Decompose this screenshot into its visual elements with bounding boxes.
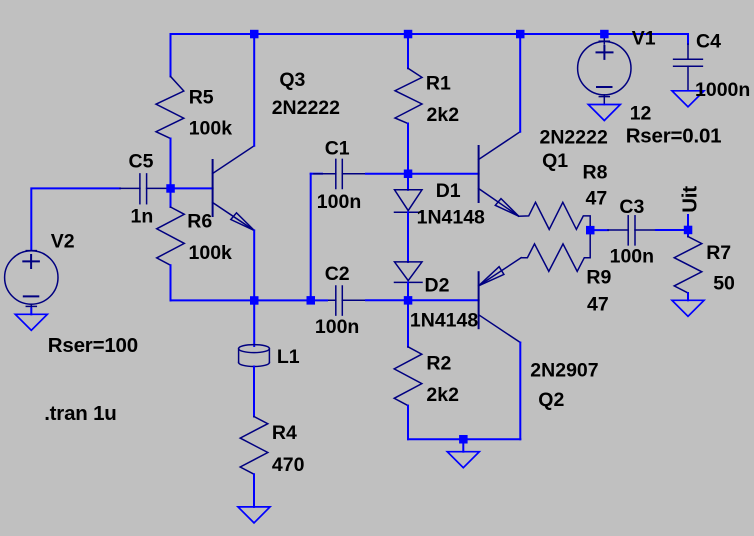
- svg-text:47: 47: [587, 293, 609, 315]
- wire C3 to output node: [656, 229, 688, 231]
- transistor Q1: [479, 132, 521, 217]
- svg-text:Q1: Q1: [542, 150, 568, 172]
- wire R6 bottom lead: [170, 265, 172, 300]
- resistor R9: [521, 230, 590, 271]
- capacitor C5: [120, 174, 168, 204]
- svg-text:100k: 100k: [189, 242, 233, 264]
- wire C4 top lead: [687, 34, 689, 44]
- node Uit stub: [687, 215, 689, 230]
- svg-text:V1: V1: [632, 27, 656, 49]
- wire C2 to node: [366, 299, 408, 301]
- wire bottom-left horizontal: [171, 299, 255, 301]
- wire L1 top lead: [253, 300, 255, 346]
- wire node to C3: [590, 229, 608, 231]
- svg-text:C4: C4: [696, 31, 721, 53]
- wire Q3 collector to rail: [253, 34, 255, 146]
- wire Q1 collector to rail: [519, 34, 521, 132]
- ground at C4: [672, 91, 704, 107]
- wire R2 bottom lead: [407, 406, 409, 440]
- svg-text:1N4148: 1N4148: [410, 310, 478, 332]
- svg-text:1N4148: 1N4148: [417, 207, 485, 229]
- wire top supply rail: [171, 33, 689, 35]
- resistor R8: [519, 202, 591, 230]
- svg-text:2N2222: 2N2222: [540, 127, 608, 149]
- wire C5 to Q3 base: [168, 187, 213, 189]
- svg-text:C5: C5: [129, 151, 154, 173]
- capacitor C1: [314, 159, 366, 188]
- svg-text:470: 470: [272, 454, 305, 476]
- wire node to Q2 base: [408, 299, 479, 301]
- svg-text:100n: 100n: [317, 191, 361, 213]
- junction nodes: [166, 30, 692, 444]
- svg-text:R1: R1: [426, 73, 451, 95]
- ground at V1: [588, 105, 620, 121]
- svg-text:C1: C1: [325, 137, 350, 159]
- svg-text:2N2222: 2N2222: [272, 97, 340, 119]
- svg-text:R4: R4: [272, 422, 297, 444]
- svg-text:47: 47: [586, 187, 608, 209]
- wire L1 to R4: [253, 367, 255, 417]
- resistor R5: [156, 76, 184, 138]
- wire R5 top lead: [170, 34, 172, 76]
- resistor R6: [157, 207, 185, 265]
- svg-text:12: 12: [630, 102, 652, 124]
- svg-text:100n: 100n: [315, 316, 359, 338]
- svg-text:R9: R9: [586, 266, 611, 288]
- resistor R2: [394, 347, 422, 406]
- wire C1 left stub: [311, 173, 322, 175]
- wire R7 top lead: [687, 230, 689, 237]
- svg-text:R2: R2: [426, 353, 451, 375]
- wire R7 bottom lead: [687, 293, 689, 300]
- capacitor C2: [314, 286, 366, 315]
- svg-text:D1: D1: [436, 180, 461, 202]
- voltage source V1: [578, 38, 631, 105]
- svg-text:R6: R6: [187, 210, 212, 232]
- svg-text:Rser=100: Rser=100: [48, 334, 138, 357]
- wire R4 bottom lead: [253, 474, 255, 507]
- svg-text:Q2: Q2: [538, 389, 564, 411]
- wire R1 top lead: [407, 34, 409, 68]
- inductor L1: [239, 345, 270, 367]
- svg-text:V2: V2: [51, 230, 75, 252]
- wire node to D1: [407, 174, 409, 190]
- wire R5 bottom lead: [170, 139, 172, 189]
- svg-text:1000n: 1000n: [695, 79, 750, 101]
- capacitor C4: [674, 44, 703, 90]
- wire C1 branch vertical link: [310, 174, 312, 301]
- svg-text:100k: 100k: [189, 118, 233, 140]
- ground at R7: [672, 300, 704, 316]
- svg-text:Uit: Uit: [679, 186, 702, 213]
- svg-text:2N2907: 2N2907: [530, 360, 598, 382]
- wire R1 bottom lead: [407, 124, 409, 174]
- svg-text:.tran 1u: .tran 1u: [44, 402, 116, 425]
- svg-text:2k2: 2k2: [427, 104, 460, 126]
- transistor Q3: [213, 146, 255, 231]
- svg-text:R5: R5: [189, 86, 214, 108]
- svg-text:D2: D2: [425, 275, 450, 297]
- wire node to Q1 base: [408, 173, 479, 175]
- wire V2 output to C5: [31, 188, 120, 249]
- ground at bottom rail: [447, 452, 479, 468]
- svg-text:R7: R7: [706, 242, 731, 264]
- resistor R7: [674, 237, 702, 294]
- diode D2: [395, 262, 423, 283]
- wire C1 to node: [366, 173, 408, 175]
- wire C2 left stub: [254, 299, 327, 301]
- svg-text:Rser=0.01: Rser=0.01: [626, 125, 722, 148]
- wire Q2 collector down: [519, 343, 521, 440]
- wire R2 top lead: [407, 300, 409, 347]
- wire Q3 emitter down: [253, 230, 255, 300]
- transistor Q2: [479, 258, 522, 343]
- capacitor C3: [608, 216, 656, 245]
- svg-text:C3: C3: [619, 196, 644, 218]
- ground at V2: [15, 309, 47, 331]
- svg-text:50: 50: [713, 273, 735, 295]
- wire bottom emitter rail: [408, 438, 520, 440]
- svg-text:1n: 1n: [131, 206, 154, 228]
- wire D2 to node: [407, 282, 409, 300]
- svg-text:L1: L1: [277, 346, 300, 368]
- svg-text:100n: 100n: [610, 245, 654, 267]
- diode D1: [395, 190, 423, 212]
- voltage source V2: [5, 251, 58, 309]
- wire R6 top lead: [170, 188, 172, 207]
- wire D1 to D2: [407, 212, 409, 262]
- svg-text:Q3: Q3: [279, 69, 305, 91]
- ground at R4: [238, 507, 270, 523]
- svg-text:C2: C2: [325, 263, 350, 285]
- resistor R1: [395, 68, 422, 123]
- svg-text:R8: R8: [583, 161, 608, 183]
- resistor R4: [240, 417, 268, 475]
- svg-text:2k2: 2k2: [426, 384, 459, 406]
- wire ground stub: [462, 439, 464, 452]
